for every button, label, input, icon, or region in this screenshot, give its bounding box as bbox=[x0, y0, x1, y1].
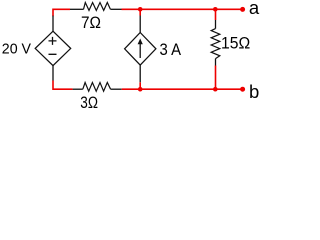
svg-text:7Ω: 7Ω bbox=[81, 14, 101, 32]
junction dot bottom right bbox=[213, 87, 218, 92]
resistor R2 3ohm zigzag bbox=[83, 83, 111, 92]
wire right rail black bottom lead bbox=[215, 59, 217, 66]
svg-text:a: a bbox=[249, 0, 260, 18]
resistor R1 7ohm zigzag bbox=[84, 3, 111, 11]
wire top-left red elbow bbox=[53, 9, 70, 16]
wire top black lead right of 7ohm bbox=[110, 8, 121, 10]
svg-text:20 V: 20 V bbox=[2, 40, 31, 57]
wire middle rail red top bbox=[139, 9, 141, 15]
junction dot top right bbox=[213, 7, 218, 12]
wire right rail red top bbox=[215, 9, 217, 20]
svg-text:b: b bbox=[249, 81, 259, 102]
wire bottom red run to terminal b bbox=[122, 88, 243, 90]
terminal dot a bbox=[240, 7, 245, 12]
junction dot bottom middle bbox=[138, 87, 143, 92]
wire bottom black lead right of 3ohm bbox=[111, 88, 122, 90]
terminal dot b bbox=[240, 87, 245, 92]
svg-text:15Ω: 15Ω bbox=[221, 35, 250, 53]
wire bottom black lead left of 3ohm bbox=[73, 88, 83, 90]
wire middle rail black bottom bbox=[139, 65, 141, 82]
wire right rail red bottom bbox=[215, 66, 217, 90]
voltage source V1 20V diamond bbox=[35, 31, 70, 65]
wire middle rail red bottom bbox=[139, 82, 141, 89]
wire right rail black top lead bbox=[215, 20, 217, 29]
svg-text:3 A: 3 A bbox=[160, 41, 182, 59]
wire bottom-left red elbow bbox=[53, 81, 73, 90]
current source I1 3A diamond with arrow bbox=[125, 33, 156, 66]
wire top black lead left of 7ohm bbox=[70, 8, 84, 10]
junction dot top middle bbox=[138, 7, 143, 12]
resistor R3 15ohm vertical zigzag bbox=[211, 29, 220, 59]
wire left rail black above source bbox=[52, 16, 54, 32]
svg-text:3Ω: 3Ω bbox=[80, 94, 98, 111]
wire middle rail black top bbox=[139, 16, 141, 33]
wire left rail black below source bbox=[52, 66, 54, 81]
wire top red run to terminal a bbox=[122, 8, 243, 10]
